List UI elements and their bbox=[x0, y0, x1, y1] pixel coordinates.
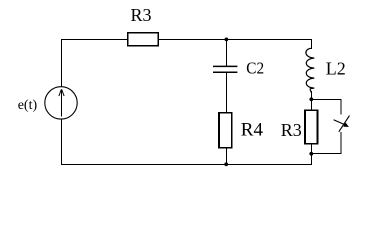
svg-text:R4: R4 bbox=[241, 120, 264, 141]
svg-text:L2: L2 bbox=[326, 59, 346, 79]
svg-text:C2: C2 bbox=[246, 58, 264, 77]
wire left branch vertical upper bbox=[61, 39, 63, 87]
resistor R3 right box bbox=[305, 110, 318, 144]
capacitor C2 plates bbox=[213, 66, 237, 72]
switch SW arrow head bbox=[343, 122, 349, 127]
wire right branch below coil bbox=[311, 91, 313, 111]
node junction top of middle branch bbox=[225, 38, 229, 42]
wire bottom rail bbox=[61, 164, 312, 166]
wire right branch top stub bbox=[311, 39, 313, 49]
resistor R4 box bbox=[219, 113, 232, 148]
wire middle branch between C2 and R4 bbox=[226, 72, 228, 113]
node junction right branch bottom bbox=[309, 152, 313, 156]
svg-text:e(t): e(t) bbox=[18, 98, 38, 113]
wire right branch below R3 box to node bbox=[311, 144, 313, 166]
switch SW blade bbox=[339, 116, 350, 132]
wire switch top stub bbox=[340, 99, 342, 114]
svg-text:R3: R3 bbox=[281, 120, 302, 140]
wire switch branch bottom horizontal bbox=[311, 153, 341, 155]
source e(t) circle bbox=[45, 87, 77, 119]
resistor R3 top box bbox=[128, 33, 159, 46]
wire top rail bbox=[61, 39, 312, 41]
wire switch branch top horizontal bbox=[311, 99, 341, 101]
wire middle branch upper bbox=[226, 39, 228, 67]
inductor L2 coil bbox=[306, 48, 314, 93]
svg-text:R3: R3 bbox=[131, 5, 152, 25]
source arrow bbox=[61, 90, 63, 116]
wire middle branch lower bbox=[226, 148, 228, 166]
node junction bottom of middle branch bbox=[224, 162, 228, 166]
wire switch bottom stub bbox=[340, 132, 342, 154]
switch SW arrow shaft bbox=[334, 120, 346, 125]
node junction right branch top bbox=[309, 97, 313, 101]
wire left branch vertical lower bbox=[61, 119, 63, 166]
